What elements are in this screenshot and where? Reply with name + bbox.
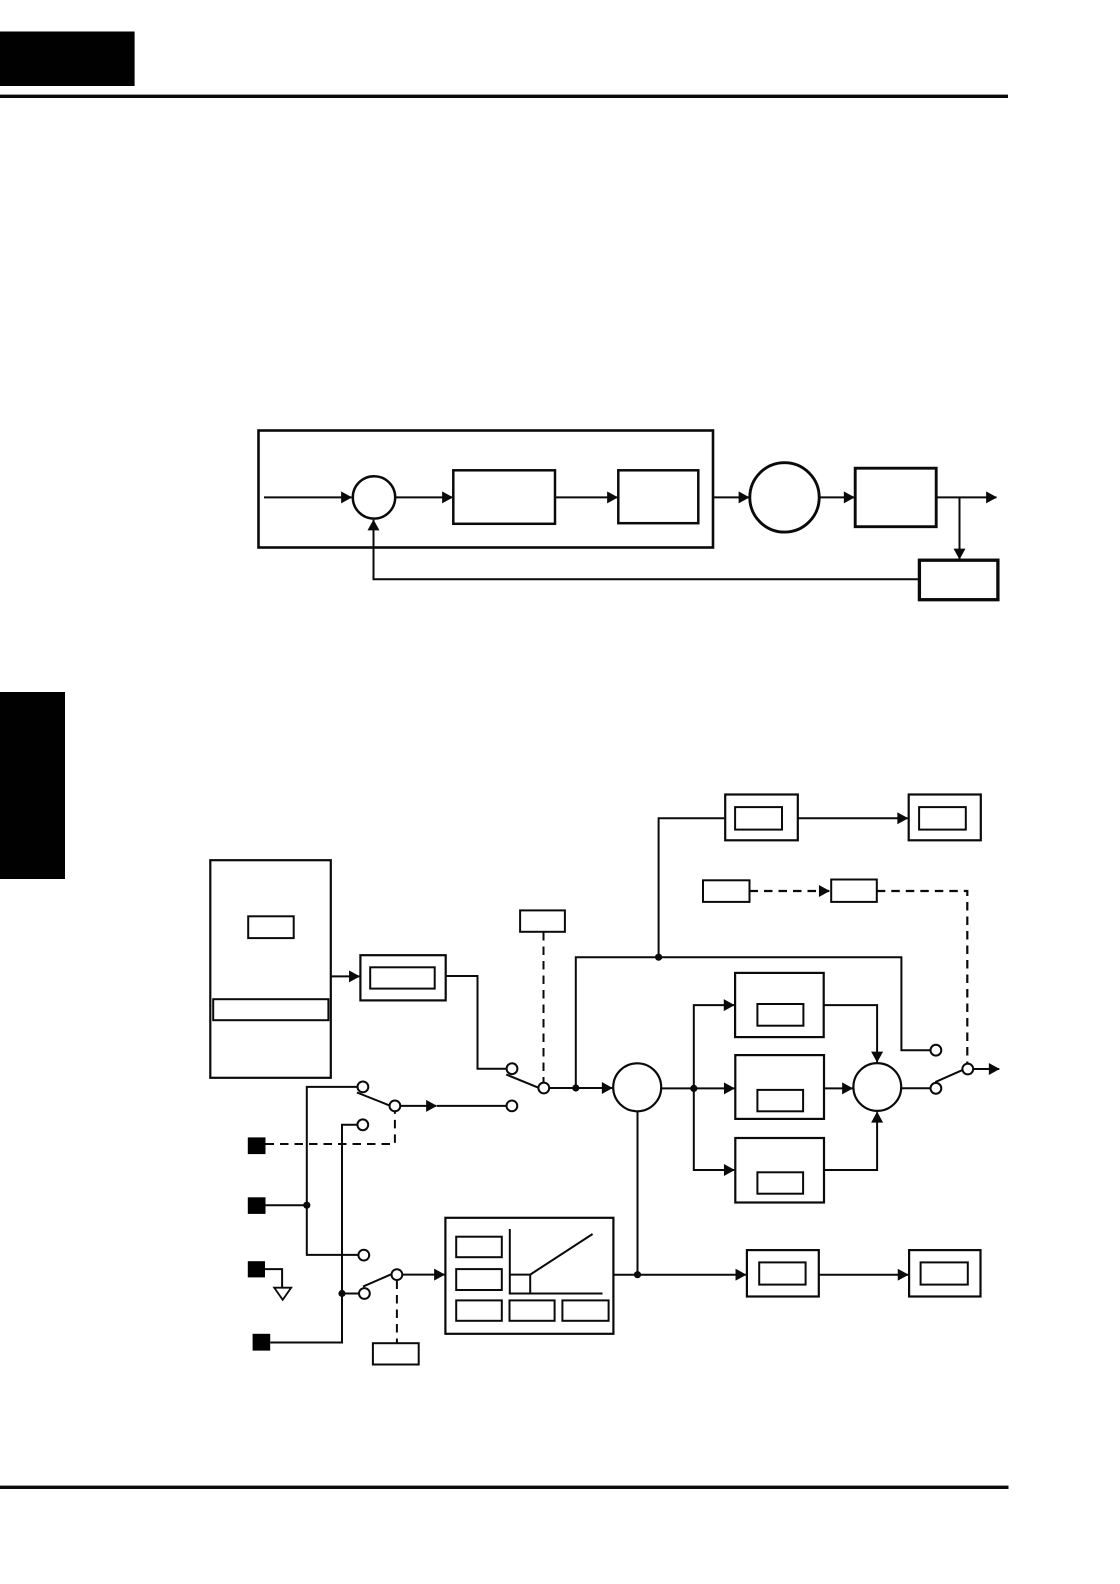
block 1 (compensator) xyxy=(453,470,555,524)
stacked double block 3 xyxy=(735,1138,824,1203)
V/f graph base step horizontal xyxy=(510,1274,530,1276)
parameter box right of dashed pair xyxy=(831,880,877,902)
terminal 2 xyxy=(248,1197,266,1214)
output switch lower contact xyxy=(931,1083,942,1094)
wire: stacked block 2 output into summing junction 2 left xyxy=(824,1087,853,1089)
wire: switch A pole to summing junction 1 xyxy=(549,1087,612,1089)
wire: summing junction 2 to output switch lower contact xyxy=(901,1087,931,1089)
net: analog contact down to terminal 4 xyxy=(270,1125,358,1343)
switch B lever xyxy=(363,1274,391,1286)
V/f graph horizontal axis xyxy=(509,1293,603,1295)
V/f graph base step vertical xyxy=(529,1275,531,1294)
summing junction (top loop) xyxy=(353,476,395,518)
terminal 3 xyxy=(248,1261,265,1277)
V/f parameter box D xyxy=(510,1300,555,1320)
V/f parameter box B xyxy=(456,1269,502,1290)
switch C upper contact xyxy=(358,1082,369,1093)
wire: summing junction 1 down to V/f line xyxy=(637,1111,639,1274)
net: switch C upper contact down to switch B upper contact xyxy=(307,1087,359,1255)
analog input contact circle xyxy=(357,1119,368,1130)
ground xyxy=(274,1288,291,1300)
output switch upper contact xyxy=(931,1045,942,1056)
output switch lever xyxy=(935,1070,962,1082)
switch C lever xyxy=(357,1093,390,1106)
V/f characteristic big box xyxy=(445,1218,613,1334)
V/f graph vertical axis xyxy=(509,1229,511,1294)
switch A upper contact xyxy=(507,1063,518,1074)
dashed wire to output switch pole xyxy=(877,891,968,1063)
panel key row box xyxy=(213,999,328,1020)
parameter box below switch B xyxy=(373,1343,419,1364)
open terminal circle xyxy=(507,1101,518,1112)
parameter box left of dashed pair xyxy=(703,880,750,902)
switch A lever xyxy=(506,1075,538,1088)
wire: upper bus to monitor block xyxy=(659,818,725,957)
wire: input into summing junction xyxy=(264,496,352,498)
dashed control wire to switch A xyxy=(543,932,545,1082)
wire: branch down to decel block xyxy=(694,1088,735,1170)
wire: junction to switch B lower contact xyxy=(342,1293,359,1295)
bottom double block 1 xyxy=(747,1250,819,1296)
summing junction 2 xyxy=(853,1063,901,1111)
wire: panel to potentiometer block xyxy=(331,975,360,977)
wire: terminal 2 to net xyxy=(266,1204,307,1206)
wire: summing junction to block 1 xyxy=(395,496,452,498)
wire: motor circle to block 3 xyxy=(819,496,854,498)
wire: main line up and across to output switch upper contact xyxy=(576,957,931,1088)
wire: branch up to accel block xyxy=(694,1005,734,1088)
output switch pole xyxy=(962,1064,973,1075)
wire: terminal 3 to ground xyxy=(265,1269,282,1287)
wire: potentiometer block to switch contact xyxy=(446,976,507,1069)
switch B lower contact xyxy=(359,1288,370,1299)
wire: switch B pole to V/f box xyxy=(402,1274,445,1276)
wire: controller box to motor circle xyxy=(713,496,749,498)
side tab xyxy=(0,692,65,879)
motor circle xyxy=(750,463,819,532)
terminal 1 xyxy=(248,1137,266,1154)
wire: stacked block 3 output into summing junction 2 bottom xyxy=(824,1112,877,1170)
wire: monitor block 1 to monitor block 2 xyxy=(798,817,908,819)
V/f parameter box E xyxy=(562,1300,608,1320)
sensor feedback box xyxy=(919,560,998,600)
footer rule xyxy=(0,1486,1009,1489)
wire: V/f output to bottom double block 1 xyxy=(613,1274,746,1276)
junction with terminal 2 wire xyxy=(303,1202,310,1209)
wire: output with arrow xyxy=(936,496,996,498)
switch A pole contact xyxy=(538,1083,549,1094)
monitor double block 2 xyxy=(909,795,981,841)
switch B upper contact circle xyxy=(358,1250,369,1261)
wire: branch down into sensor box xyxy=(959,497,961,559)
wire: stacked block 1 output into summing junction 2 top xyxy=(824,1005,877,1062)
parameter box above switch A xyxy=(520,910,565,931)
summing junction 1 xyxy=(613,1063,661,1111)
junction of summing-1 drop on V/f output xyxy=(634,1271,641,1278)
block 2 xyxy=(618,470,698,523)
junction on upper bus xyxy=(655,954,662,961)
wire: switch C pole arrow to open terminal xyxy=(400,1105,437,1107)
wire: feedback to summing junction xyxy=(374,520,920,579)
wire: continuation to open terminal circle xyxy=(437,1105,507,1107)
switch B pole xyxy=(392,1269,403,1280)
dashed wire between parameter boxes xyxy=(750,890,830,892)
potentiometer double block xyxy=(360,955,445,1000)
terminal 4 xyxy=(253,1334,271,1351)
V/f parameter box C xyxy=(456,1300,502,1320)
panel display box xyxy=(248,916,294,938)
wire: block 1 to block 2 xyxy=(555,496,618,498)
header rule xyxy=(0,95,1008,98)
bottom double block 2 xyxy=(909,1250,980,1296)
stacked double block 1 xyxy=(735,973,824,1037)
wire: summing junction 1 to branch junction xyxy=(661,1087,734,1089)
wire: final output arrow xyxy=(973,1068,999,1070)
switch C pole xyxy=(390,1101,401,1112)
branch junction dot xyxy=(690,1085,697,1092)
block 3 (load) xyxy=(855,468,936,527)
dashed control wire from terminal 1 to switch C xyxy=(266,1112,395,1145)
V/f graph ramp diagonal xyxy=(530,1234,592,1275)
header black bar xyxy=(0,32,135,87)
controller outer box xyxy=(259,431,714,548)
operator panel tall box xyxy=(210,860,330,1078)
V/f parameter box A xyxy=(456,1237,502,1258)
junction at main line xyxy=(572,1084,579,1091)
junction on analog net xyxy=(338,1290,345,1297)
dashed control wire below switch B xyxy=(396,1281,398,1343)
wire: bottom block 1 to bottom block 2 xyxy=(819,1274,908,1276)
monitor double block 1 xyxy=(725,795,798,841)
stacked double block 2 xyxy=(735,1055,824,1119)
